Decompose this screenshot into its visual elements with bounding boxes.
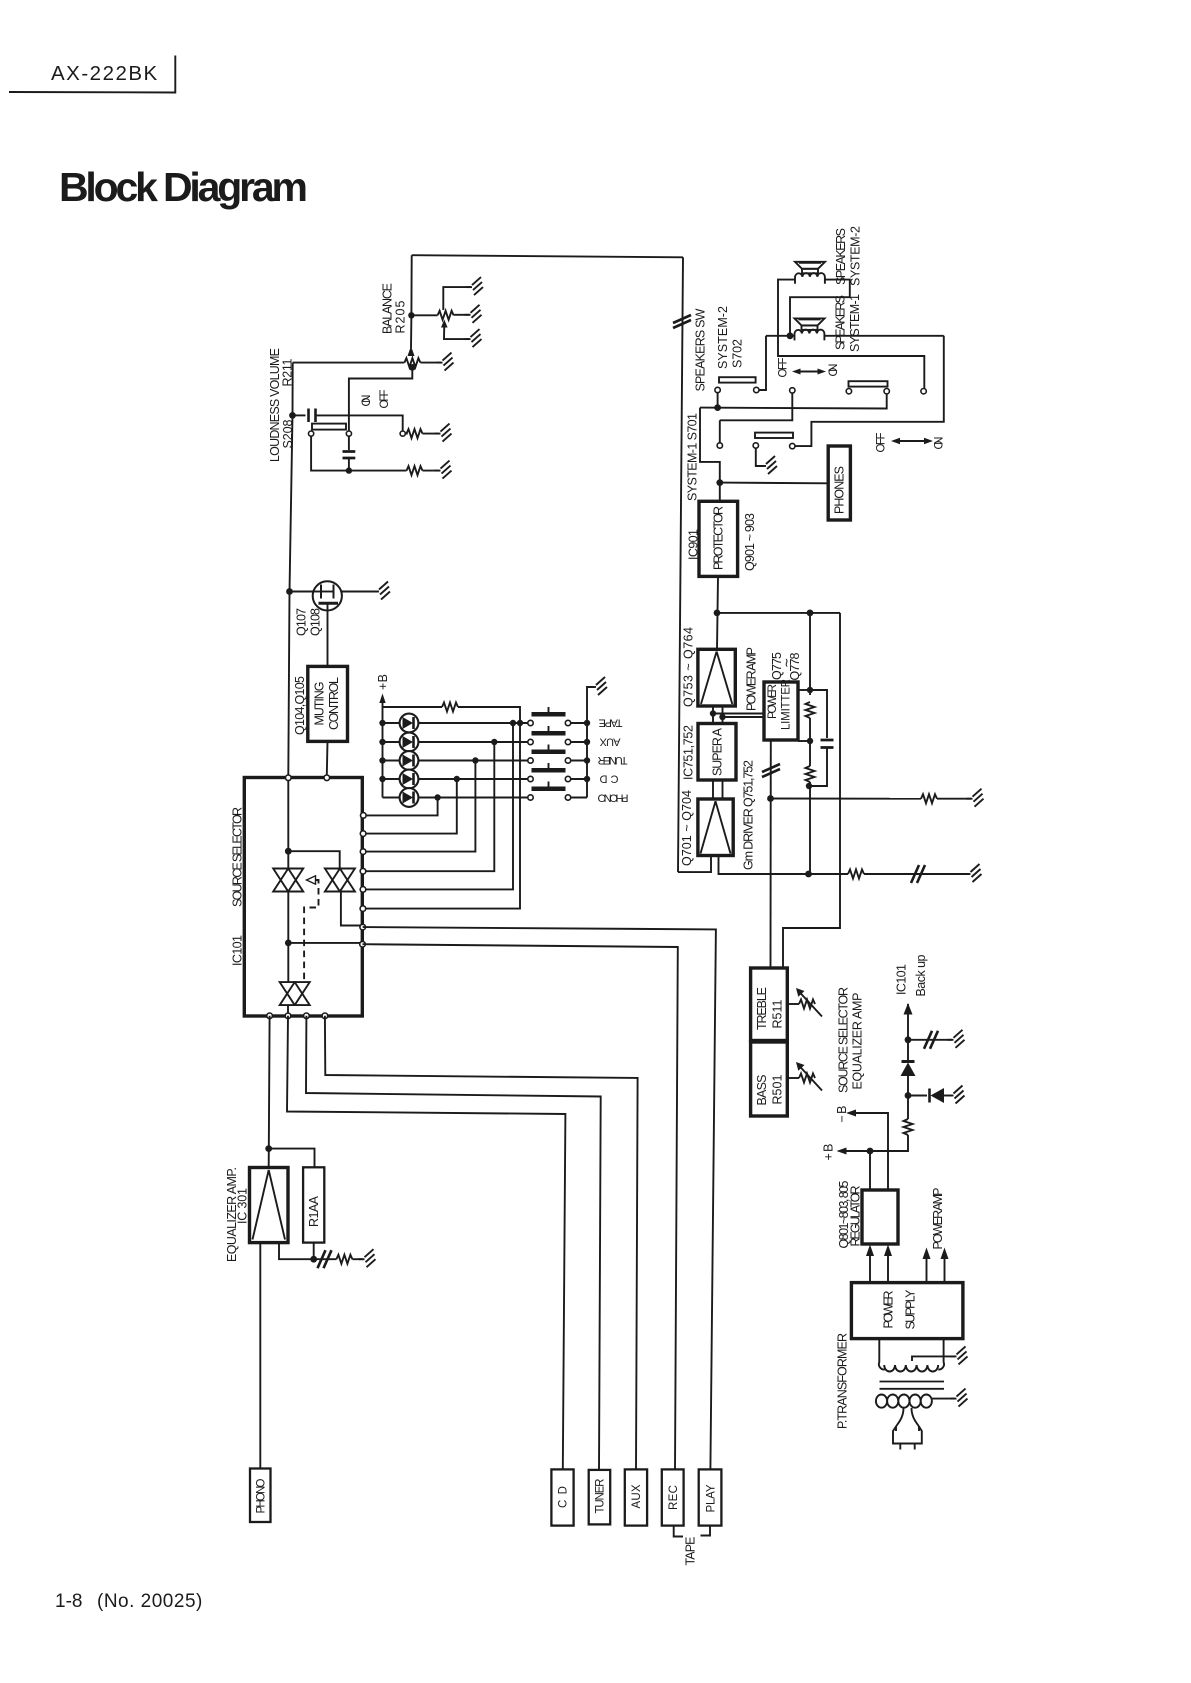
ground primary <box>951 1346 968 1364</box>
wire backup top ground branch <box>908 1039 952 1041</box>
wire selector input chain <box>287 781 289 869</box>
switch SW phono <box>528 782 587 801</box>
svg-text:C D: C D <box>558 1486 570 1508</box>
wire tape bracket play <box>701 1526 711 1536</box>
box REGULATOR <box>862 1190 898 1244</box>
wire loudness lower branch <box>311 436 349 470</box>
wire to ground marker <box>864 873 969 875</box>
box EQUALIZER AMP IC301 <box>250 1168 289 1243</box>
svg-text:SOURCE SELECTOR: SOURCE SELECTOR <box>231 807 245 907</box>
pin selector right edge 6 <box>360 906 366 912</box>
wire primary center tap <box>912 1356 955 1361</box>
ground balance top <box>466 277 483 295</box>
wire psu to regulator arrows <box>866 1245 892 1283</box>
wire aux routing <box>325 1016 638 1470</box>
svg-text:Q701 ~ Q704: Q701 ~ Q704 <box>680 790 694 866</box>
svg-text:AUX: AUX <box>599 736 621 748</box>
wire right attenuator to play pin <box>341 892 360 926</box>
svg-text:(No. 20025): (No. 20025) <box>97 1591 203 1612</box>
box REC <box>662 1469 684 1525</box>
pin s702 contact right <box>754 387 759 392</box>
svg-text:R511: R511 <box>771 999 785 1028</box>
svg-text:C D: C D <box>599 773 618 785</box>
box POWER SUPPLY <box>851 1283 963 1339</box>
LED D3 tuner <box>400 751 419 770</box>
wire driver input from rail <box>678 856 711 873</box>
node s702 junction <box>714 404 721 411</box>
cable marker on left rail <box>673 315 691 328</box>
wire protector to power amp <box>717 576 718 649</box>
wire speaker1 line <box>766 335 944 337</box>
pin selector bottom 3 <box>304 1013 310 1019</box>
wire regulator feed <box>869 1151 871 1190</box>
svg-text:P.TRANSFORMER: P.TRANSFORMER <box>836 1333 850 1429</box>
switch S208 loudness body <box>309 424 406 437</box>
attenuator XX bottom <box>280 982 310 1005</box>
svg-text:Q753 ~ Q764: Q753 ~ Q764 <box>682 627 696 707</box>
transistor Q107 Q108 muting <box>290 581 378 666</box>
svg-text:SYSTEM-2: SYSTEM-2 <box>716 306 730 369</box>
ground secondary <box>951 1389 968 1407</box>
wire muting control to selector <box>326 741 329 775</box>
resistor led supply <box>383 703 521 724</box>
pin selector bottom 4 <box>322 1013 328 1019</box>
svg-text:TAPE: TAPE <box>599 717 623 729</box>
box BASS R501 <box>751 1042 788 1116</box>
wire eq ground leg <box>279 1243 314 1260</box>
svg-text:SUPER A: SUPER A <box>711 727 725 776</box>
svg-text:Q107: Q107 <box>295 608 309 636</box>
svg-text:TAPE: TAPE <box>684 1537 698 1566</box>
resistor bias to ground <box>771 794 972 803</box>
svg-text:POWER: POWER <box>767 684 779 719</box>
potentiometer R211 VOLUME with wiper arrow <box>293 315 441 367</box>
svg-text:POWER AMP: POWER AMP <box>931 1188 945 1250</box>
wire bottom attenuator to pin <box>287 1005 289 1013</box>
ground balance middle <box>465 305 482 323</box>
wire staircase pin6 resistor line <box>366 723 520 909</box>
svg-text:1-8: 1-8 <box>55 1591 82 1612</box>
node backup top junction <box>905 1036 912 1043</box>
box IC101 SOURCE SELECTOR <box>244 778 362 1017</box>
svg-text:R501: R501 <box>771 1074 785 1104</box>
node limiter top junction <box>807 687 813 693</box>
wire cd routing <box>287 1016 565 1470</box>
potentiometer R205 BALANCE <box>411 287 471 339</box>
capacitor loudness series <box>293 409 403 432</box>
ground s701 <box>760 456 777 474</box>
svg-text:+B: +B <box>376 674 390 690</box>
ground driver <box>965 864 982 882</box>
resistor loudness lower to ground <box>349 466 439 475</box>
potentiometer treble <box>787 988 822 1017</box>
svg-text:CONTROL: CONTROL <box>327 677 341 730</box>
svg-text:BALANCE: BALANCE <box>381 283 395 334</box>
wire limiter right top <box>798 689 810 691</box>
wire play routing <box>363 927 716 1469</box>
box POWER LIMITTER <box>764 682 798 740</box>
AC plug <box>893 1408 922 1450</box>
pin s702 third contact <box>790 388 795 393</box>
box AUX <box>625 1469 647 1525</box>
transformer secondary <box>876 1395 955 1408</box>
svg-text:−B: −B <box>835 1106 849 1123</box>
wire feedback vertical <box>809 613 811 695</box>
wire common bus speakers <box>700 394 887 409</box>
wire bus super a to driver <box>713 780 723 799</box>
wire psu to power amp arrows <box>923 1248 949 1283</box>
pin s701 right <box>790 443 795 448</box>
pin selector top muting <box>324 775 330 781</box>
wire s701 mid to ground <box>756 448 764 466</box>
node power rail junction <box>714 610 721 617</box>
svg-text:EQUALIZER AMP: EQUALIZER AMP <box>851 993 865 1090</box>
box PHONO <box>250 1469 271 1523</box>
resistor feedback upper <box>806 702 815 718</box>
arrow dashed control <box>307 876 316 884</box>
switch S702 pole1 bar <box>719 377 756 382</box>
wire speaker1 right return <box>795 336 944 446</box>
pin s701 mid <box>753 443 758 448</box>
resistor driver load <box>848 870 864 879</box>
wire limiter output down <box>770 740 772 968</box>
wire rec routing <box>363 944 678 1469</box>
node driver output junction <box>805 871 812 878</box>
box PHONES <box>828 446 850 520</box>
box TREBLE R511 <box>751 968 788 1041</box>
capacitor feedback <box>809 690 834 786</box>
wire branch to R1AA <box>269 1149 315 1167</box>
ground Q107 <box>373 582 390 600</box>
svg-text:+B: +B <box>822 1144 836 1161</box>
node -B arrow <box>846 1110 856 1117</box>
wire led row TUNER <box>383 760 529 762</box>
pin selector right edge 8 rec <box>360 941 366 947</box>
box Q753~Q764 POWER AMP <box>698 649 735 706</box>
wire wiper output to loudness switch pole <box>349 367 412 431</box>
svg-text:TREBLE: TREBLE <box>755 987 769 1030</box>
ground switch rail <box>590 677 607 695</box>
node +B arrow regulator <box>837 1148 847 1155</box>
attenuator XX left <box>273 869 303 892</box>
node switch rail taps <box>584 720 590 782</box>
wire speaker1 left to switch <box>759 336 766 390</box>
pin selector bottom 1 <box>267 1013 273 1019</box>
wire speaker2 right lead <box>790 280 850 336</box>
svg-text:SYSTEM-1: SYSTEM-1 <box>848 294 862 352</box>
svg-text:AUX: AUX <box>631 1484 643 1508</box>
svg-text:BASS: BASS <box>755 1075 769 1106</box>
svg-text:PROTECTOR: PROTECTOR <box>712 506 726 570</box>
cable marker limiter output <box>762 764 780 777</box>
wire bus to power limiter <box>713 714 764 718</box>
svg-text:Back up: Back up <box>914 954 928 996</box>
wire staircase pin2 <box>366 779 457 834</box>
svg-text:SPEAKERS SW: SPEAKERS SW <box>694 308 708 391</box>
footer page number <box>55 1591 203 1612</box>
capacitor loudness shunt <box>343 436 356 470</box>
wire phono chain <box>268 1016 271 1167</box>
svg-text:ON: ON <box>934 437 946 450</box>
svg-text:SOURCE SELECTOR: SOURCE SELECTOR <box>837 987 851 1093</box>
box IC901 PROTECTOR <box>699 501 738 576</box>
node regulator feed junction <box>867 1148 874 1155</box>
switch S702 pole2 bar <box>849 381 888 386</box>
svg-text:R205: R205 <box>394 300 408 333</box>
ground loudness lower <box>435 461 452 479</box>
node Q107 gate junction <box>286 588 293 595</box>
node backup bottom junction <box>905 1092 912 1099</box>
pin selector bottom 2 <box>285 1013 291 1019</box>
svg-text:IC751,752: IC751,752 <box>682 725 696 780</box>
wire feedback rail right <box>717 612 840 614</box>
diode backup shunt <box>908 1088 952 1103</box>
ground backup bottom <box>948 1086 965 1104</box>
wire speaker2 left lead <box>778 280 924 389</box>
pin selector right edge 1 <box>361 813 367 819</box>
svg-text:Q104,Q105: Q104,Q105 <box>293 676 307 735</box>
arrow off-on s701 <box>895 440 929 442</box>
LED D4 cd <box>400 770 419 789</box>
arrow off-on s702 <box>796 371 822 373</box>
box R1AA <box>303 1167 324 1242</box>
node cap bottom junction <box>806 783 812 789</box>
LED D1 tape <box>400 714 419 733</box>
wire staircase pin5 <box>366 723 513 889</box>
svg-text:IC 301: IC 301 <box>236 1188 250 1224</box>
svg-text:Block Diagram: Block Diagram <box>59 164 308 210</box>
wire balance vertical rail <box>410 255 412 315</box>
wire between resistors <box>809 718 811 766</box>
wire s701 left contact drop <box>719 420 721 443</box>
wire branch to right attenuator <box>288 851 339 868</box>
svg-text:SYSTEM-1 S701: SYSTEM-1 S701 <box>686 413 700 501</box>
transformer core <box>880 1382 945 1389</box>
switch SW cd <box>528 763 587 782</box>
wire s702 left contact down <box>717 393 719 408</box>
wire driver output <box>719 856 849 875</box>
svg-text:MUTING: MUTING <box>313 682 327 726</box>
wire -B line <box>850 1113 888 1190</box>
page header model label AX-222BK <box>9 56 175 93</box>
wire led row AUX <box>383 741 529 743</box>
node staircase junctions <box>434 720 523 801</box>
LED D2 aux <box>400 733 419 752</box>
box TUNER <box>589 1470 611 1525</box>
diode backup series <box>901 1040 916 1096</box>
svg-text:POWER AMP: POWER AMP <box>745 647 759 711</box>
node phones junction <box>716 479 723 486</box>
svg-text:REGULATOR: REGULATOR <box>849 1186 863 1247</box>
svg-text:POWER: POWER <box>882 1291 896 1329</box>
box C D <box>551 1469 573 1525</box>
svg-text:S702: S702 <box>731 339 745 368</box>
node limiter bottom junction <box>807 738 813 744</box>
wire node to rec pin <box>288 942 360 944</box>
svg-text:Q108: Q108 <box>309 608 323 636</box>
wire limiter right bottom <box>798 740 810 742</box>
resistor loudness upper to ground <box>405 429 439 438</box>
svg-text:PHONO: PHONO <box>256 1478 268 1513</box>
svg-text:ON: ON <box>828 364 840 377</box>
box IC751,752 SUPER A <box>698 724 736 781</box>
pin selector right edge 2 <box>360 831 366 837</box>
switch SW aux <box>528 726 587 745</box>
wire dashed control path <box>304 880 318 980</box>
svg-text:TUNER: TUNER <box>595 1479 607 1514</box>
svg-text:ON: ON <box>361 395 373 407</box>
resistor r1aa ground <box>314 1250 363 1268</box>
pin s702 pole2 right <box>884 389 889 394</box>
switch S701 bar <box>755 433 793 438</box>
box PLAY <box>699 1469 722 1525</box>
wire eq output to phono <box>259 1243 261 1469</box>
wire staircase pin4 <box>366 742 494 871</box>
LED D5 phono <box>400 788 419 807</box>
wire r1aa bottom <box>313 1243 315 1260</box>
node bias junction <box>767 795 774 802</box>
pin s701 left <box>717 443 722 448</box>
pin s702 pole2 spare <box>921 389 926 394</box>
node led rail taps <box>379 720 385 782</box>
svg-text:SPEAKERS: SPEAKERS <box>834 295 848 350</box>
node backup arrow <box>904 1003 913 1040</box>
svg-text:PHONO: PHONO <box>597 792 628 804</box>
wire switch common rail <box>587 687 594 798</box>
attenuator XX right <box>325 869 355 892</box>
cable marker backup <box>924 1031 938 1049</box>
node loudness lower junction <box>346 467 352 473</box>
svg-text:OFF: OFF <box>876 433 888 453</box>
wire resistor lower to node <box>809 782 811 874</box>
svg-text:IC101: IC101 <box>895 964 909 995</box>
wire bus power amp to super a <box>713 706 723 724</box>
wire tone feedback path <box>783 613 840 968</box>
svg-text:IC101: IC101 <box>231 935 245 966</box>
speaker SYSTEM-1 <box>795 318 825 340</box>
node +B arrow <box>379 694 385 798</box>
transformer primary <box>879 1339 944 1372</box>
pin selector right edge 7 play <box>360 924 366 930</box>
node selector chain upper <box>285 848 292 855</box>
pin selector right edge 3 <box>360 849 366 855</box>
wire left rail down from top <box>678 257 683 872</box>
svg-text:Q901 ~ 903: Q901 ~ 903 <box>743 513 757 571</box>
speaker SYSTEM-2 <box>795 262 825 284</box>
ground balance bottom <box>465 329 482 347</box>
wire led row PHONO <box>383 797 529 799</box>
pin selector right edge 5 <box>360 887 366 893</box>
wire led row TAPE <box>383 722 529 724</box>
node selector chain lower <box>285 940 292 947</box>
svg-text:R1AA: R1AA <box>307 1195 321 1227</box>
wire main rail volume down to selector <box>288 363 292 775</box>
node bus taps <box>710 710 726 720</box>
svg-text:AX-222BK: AX-222BK <box>51 62 159 85</box>
cable marker driver ground <box>911 865 925 883</box>
svg-text:Q778: Q778 <box>788 652 802 680</box>
node r1aa ground junction <box>310 1256 317 1263</box>
ground loudness upper <box>435 424 452 442</box>
wire tape bracket rec <box>674 1526 683 1537</box>
svg-text:PHONES: PHONES <box>833 466 847 514</box>
svg-text:OFF: OFF <box>379 390 391 409</box>
node feedback tap <box>807 610 814 617</box>
ground bias <box>967 789 984 807</box>
svg-text:IC901: IC901 <box>687 529 701 560</box>
wire s701 bypass jog <box>700 408 720 501</box>
node balance junction <box>408 312 414 318</box>
pin s702 pole2 left <box>846 389 851 394</box>
box Q701~Q704 Gm DRIVER <box>698 799 733 856</box>
wire to phones <box>720 482 828 485</box>
switch SW tape <box>528 707 587 726</box>
ground backup top <box>948 1030 965 1048</box>
svg-text:LIMITTER: LIMITTER <box>781 679 793 730</box>
pin s702 contact left <box>715 387 720 392</box>
node eq input junction <box>265 1145 272 1152</box>
wire led row CD <box>383 778 529 780</box>
resistor feedback lower <box>806 766 815 782</box>
ground r1aa <box>359 1249 376 1267</box>
switch SW tuner <box>528 745 587 764</box>
svg-text:TUNER: TUNER <box>597 754 627 766</box>
svg-text:OFF: OFF <box>778 358 790 378</box>
resistor backup feed <box>841 1096 913 1152</box>
node speaker1 left junction <box>787 332 794 339</box>
svg-text:SUPPLY: SUPPLY <box>904 1289 918 1330</box>
ground volume right <box>437 353 454 371</box>
svg-text:SYSTEM-2: SYSTEM-2 <box>849 226 863 286</box>
box MUTING CONTROL <box>308 666 348 741</box>
pin selector right edge 4 <box>360 868 366 874</box>
wire staircase pin3 <box>366 761 475 852</box>
node volume wiper output <box>409 364 416 371</box>
wire top rail from balance to speakers switch rail <box>412 255 683 257</box>
svg-text:SPEAKERS: SPEAKERS <box>834 228 848 285</box>
wire staircase pin1 phono led <box>366 798 438 816</box>
node loudness cap junction <box>289 412 296 419</box>
pin selector top input <box>286 775 292 781</box>
potentiometer bass <box>787 1062 822 1091</box>
svg-text:PLAY: PLAY <box>706 1484 718 1512</box>
svg-text:Gm DRIVER Q751,752: Gm DRIVER Q751,752 <box>742 760 756 870</box>
svg-text:REC: REC <box>668 1485 680 1510</box>
wire second bus <box>720 393 793 420</box>
wire tuner routing <box>306 1016 601 1470</box>
wire left attenuator down <box>287 892 289 983</box>
